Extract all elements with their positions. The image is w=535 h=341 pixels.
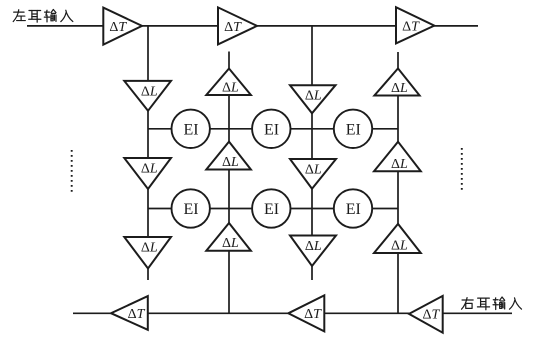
svg-text:ΔL: ΔL: [222, 236, 239, 251]
svg-text:ΔL: ΔL: [141, 241, 158, 256]
svg-text:ΔT: ΔT: [422, 308, 440, 323]
svg-text:ΔL: ΔL: [391, 81, 408, 96]
svg-text:EI: EI: [264, 122, 279, 139]
svg-text:ΔL: ΔL: [305, 239, 322, 254]
svg-text:ΔT: ΔT: [224, 20, 242, 35]
svg-text:ΔL: ΔL: [305, 163, 322, 178]
svg-text:ΔL: ΔL: [141, 162, 158, 177]
svg-text:ΔT: ΔT: [304, 307, 322, 322]
svg-text:EI: EI: [183, 201, 198, 218]
svg-text:EI: EI: [183, 122, 198, 139]
svg-text:ΔL: ΔL: [141, 84, 158, 99]
svg-text:ΔL: ΔL: [222, 155, 239, 170]
svg-text:ΔL: ΔL: [305, 89, 322, 104]
svg-text:EI: EI: [346, 122, 361, 139]
svg-text:ΔT: ΔT: [128, 307, 146, 322]
svg-text:ΔT: ΔT: [402, 19, 420, 34]
svg-text:ΔL: ΔL: [391, 157, 408, 172]
svg-text:ΔT: ΔT: [109, 20, 127, 35]
svg-text:EI: EI: [264, 201, 279, 218]
svg-text:ΔL: ΔL: [391, 239, 408, 254]
svg-text:EI: EI: [346, 201, 361, 218]
svg-text:ΔL: ΔL: [222, 81, 239, 96]
